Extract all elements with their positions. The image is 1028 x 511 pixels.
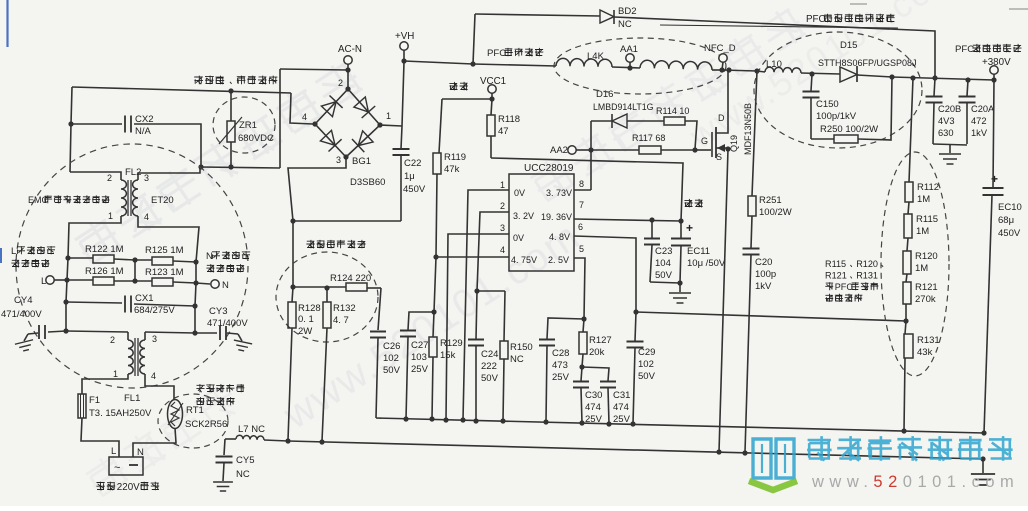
wire AC-N to left loop: [280, 69, 348, 70]
svg-text:ZR1: ZR1: [239, 120, 257, 131]
node row2 mid: [132, 278, 137, 283]
wire PFC output line: [892, 77, 994, 80]
svg-text:C29: C29: [638, 347, 655, 358]
svg-text:1: 1: [113, 369, 118, 379]
svg-text:NC: NC: [236, 469, 250, 480]
node CX1 right: [192, 303, 197, 308]
node NFC_D junction: [719, 67, 724, 72]
wire F1 to inlet L: [81, 418, 119, 457]
svg-text:R126 1M: R126 1M: [85, 266, 124, 277]
resistor R131: [905, 321, 906, 334]
svg-text:N: N: [222, 280, 229, 291]
svg-text:50V: 50V: [383, 365, 401, 376]
bus wire signal-ground: [376, 418, 984, 433]
resistor R122: [68, 257, 93, 259]
svg-text:C28: C28: [552, 348, 569, 359]
svg-text:PFC: PFC: [835, 282, 854, 292]
node pin4-R119: [433, 254, 438, 259]
svg-text:43k: 43k: [917, 347, 933, 358]
transformer FL2 left winding: [121, 180, 126, 216]
svg-text:8: 8: [579, 179, 584, 189]
dashed ellipse L4K: [554, 38, 726, 94]
svg-text:4. 7: 4. 7: [333, 315, 349, 326]
svg-text:NC: NC: [510, 354, 524, 365]
node +VH junction: [401, 58, 406, 63]
wire Q19 source to bus: [719, 149, 728, 452]
wire RT1 to inlet N: [133, 428, 176, 457]
resistor R132: [326, 288, 328, 302]
svg-text:R114 10: R114 10: [656, 106, 689, 116]
node L7-R128 junction: [285, 438, 290, 443]
node R119-R129 junction: [431, 309, 436, 314]
node VCC1 junction: [489, 96, 494, 101]
wire pin5: [574, 258, 585, 319]
svg-text:EC10: EC10: [998, 202, 1022, 213]
svg-text:68μ: 68μ: [998, 215, 1014, 226]
resistor R121: [903, 282, 911, 304]
transformer FL1 core: [134, 338, 136, 376]
resistor R129: [433, 312, 434, 337]
svg-text:100/2W: 100/2W: [759, 207, 792, 218]
node R251 snubber junction: [754, 68, 759, 73]
wire FL2 pin2 top: [70, 172, 121, 180]
node C20B junction: [932, 75, 937, 80]
wire EC11-C23 join: [650, 282, 680, 283]
dashed circle around ZR1: [213, 97, 275, 153]
faint diagonal watermark 2: [275, 213, 588, 438]
node AC-N junction: [345, 67, 350, 72]
node bus1 R131: [901, 428, 906, 433]
node bus2 C20: [742, 450, 747, 455]
svg-text:www.520101.com: www.520101.com: [811, 473, 1019, 491]
svg-text:1: 1: [500, 180, 505, 190]
node row1 mid: [132, 257, 137, 262]
transformer FL1 right winding: [144, 332, 146, 340]
node row2 right: [193, 280, 198, 285]
terminal NFC_D: [719, 54, 727, 62]
svg-text:R122 1M: R122 1M: [85, 244, 124, 255]
svg-text:R115: R115: [916, 214, 938, 225]
node bridge pin2: [345, 86, 350, 91]
node C20A junction: [965, 77, 970, 82]
svg-text:Q19: Q19: [729, 135, 739, 152]
svg-text:C31: C31: [613, 390, 630, 401]
svg-text:D15: D15: [840, 40, 857, 51]
terminal VCC1: [488, 85, 496, 93]
wire L4K mid: [612, 67, 640, 68]
svg-text:CY3: CY3: [209, 306, 227, 317]
node bus1 C24: [473, 418, 478, 423]
svg-text:N/A: N/A: [135, 126, 152, 137]
node ZR1 top junction: [228, 88, 233, 93]
svg-text:1kV: 1kV: [755, 281, 772, 292]
node bus1 C30: [579, 420, 584, 425]
bridge diode bottom-right: [358, 131, 373, 146]
node CX1 left: [63, 299, 68, 304]
ground main: [982, 459, 984, 473]
svg-text:UCC28019: UCC28019: [524, 163, 574, 174]
svg-text:R120: R120: [915, 251, 938, 262]
svg-text:AC-N: AC-N: [338, 44, 362, 55]
node bridge pin3: [343, 154, 348, 159]
svg-text:R132: R132: [333, 303, 356, 314]
svg-text:LMBD914LT1G: LMBD914LT1G: [593, 102, 654, 112]
node bus1 R129: [429, 416, 434, 421]
svg-text:25V: 25V: [585, 414, 603, 425]
blue scan edge line: [6, 0, 8, 47]
resistor R127: [583, 319, 584, 332]
wire pin4: [436, 256, 509, 258]
terminal N: [211, 280, 219, 288]
svg-text:L: L: [41, 276, 46, 287]
wire C26 riser: [378, 288, 381, 330]
bus wire power-return: [288, 441, 983, 459]
svg-text:C150: C150: [816, 99, 839, 110]
wire mid column: [134, 260, 136, 281]
resistor R126: [67, 279, 93, 281]
resistor R125: [135, 259, 152, 261]
svg-text:R121: R121: [825, 271, 847, 281]
wire bridge pin3 down-left: [288, 157, 346, 221]
node pin2-C24 junction: [474, 288, 479, 293]
svg-text:R121: R121: [915, 282, 938, 293]
svg-text:4: 4: [151, 371, 156, 381]
node bus1 right end: [981, 430, 986, 435]
svg-text:5: 5: [579, 244, 584, 254]
capacitor C20B: [934, 78, 935, 96]
wire right column rows: [195, 262, 196, 333]
svg-text:NC: NC: [618, 19, 632, 30]
node R112 column junction: [910, 75, 915, 80]
transistor Q19 source lead: [716, 147, 728, 149]
node Q19 source junction: [725, 146, 730, 151]
inductor L10: [757, 71, 765, 72]
svg-text:R120: R120: [856, 259, 878, 269]
label 防高压、雷击电阻: [194, 76, 203, 85]
label 供电 (VCC1): [449, 82, 457, 90]
wire C22 riser: [401, 62, 404, 149]
svg-text:L: L: [11, 245, 16, 256]
faint diagonal watermark 3: [527, 4, 809, 205]
svg-text:L10: L10: [766, 59, 782, 70]
svg-text:474: 474: [585, 402, 601, 413]
resistor R115: [904, 214, 912, 238]
node AA1 junction: [627, 65, 632, 70]
transformer FL1 left winding: [127, 332, 129, 340]
resistor R150: [504, 291, 505, 341]
svg-text:S: S: [716, 152, 722, 162]
resistor R117: [591, 149, 639, 151]
wire N terminal: [196, 283, 210, 284]
svg-text:1M: 1M: [916, 226, 929, 237]
svg-text:630: 630: [938, 128, 954, 138]
svg-text:F1: F1: [89, 395, 100, 406]
label annotation line4: [825, 294, 833, 302]
svg-text:1kV: 1kV: [971, 128, 988, 138]
svg-text:472: 472: [971, 116, 987, 126]
label 供电 (pin7): [684, 199, 692, 207]
svg-text:684/275V: 684/275V: [134, 305, 175, 316]
svg-text:0V: 0V: [514, 188, 525, 198]
svg-text:3: 3: [152, 334, 157, 344]
svg-text:4: 4: [500, 245, 505, 255]
svg-text:R118: R118: [498, 114, 520, 125]
label Q19: [729, 135, 739, 152]
svg-text:102: 102: [638, 359, 654, 370]
svg-text:AA2: AA2: [550, 145, 568, 156]
node pin7-C23: [649, 217, 654, 222]
label MDF13N50B: [743, 103, 753, 155]
node VH-riser junction: [470, 61, 475, 66]
svg-text:1: 1: [108, 211, 113, 221]
bridge diode top-left: [321, 102, 336, 117]
AC inlet connector: [109, 457, 143, 475]
node bridge pin4: [312, 121, 317, 126]
inductor L7: [225, 438, 236, 440]
ground output caps: [949, 144, 951, 153]
svg-text:20k: 20k: [589, 347, 605, 358]
capacitor C28: [539, 340, 555, 346]
svg-text:450V: 450V: [998, 228, 1021, 239]
wire C27 branch: [408, 312, 434, 330]
svg-text:D: D: [718, 113, 725, 123]
svg-text:4: 4: [302, 112, 307, 122]
svg-text:C27: C27: [411, 340, 428, 351]
svg-text:3: 3: [336, 155, 341, 165]
node bridge pin1: [377, 122, 382, 127]
transformer FL2 right winding: [133, 180, 138, 216]
wire NFC_D node: [722, 70, 757, 71]
dashed ellipse D15: [754, 32, 922, 148]
wire AC-N branch: [279, 69, 281, 168]
svg-text:15k: 15k: [440, 350, 456, 361]
svg-text:1M: 1M: [915, 263, 928, 274]
label 保护电阻: [196, 397, 204, 405]
svg-text:0V: 0V: [513, 233, 524, 243]
capacitor C31: [600, 382, 616, 388]
capacitor C150: [811, 74, 812, 91]
inductor L4K section2: [640, 60, 712, 70]
svg-text:2: 2: [110, 335, 115, 345]
svg-text:R150: R150: [510, 342, 533, 353]
resistor R120: [903, 251, 911, 274]
wire CY row left segment: [66, 331, 128, 332]
capacitor C22: [393, 149, 410, 155]
node ZR1 bottom junction: [228, 164, 233, 169]
inductor L4K section1: [556, 58, 612, 67]
capacitor CY3: [195, 332, 217, 334]
svg-text:2: 2: [338, 78, 343, 88]
svg-text:C23: C23: [655, 246, 672, 257]
node CY row left: [63, 328, 68, 333]
resistor R112: [909, 78, 913, 182]
svg-text:STTH8S06FP/UGSP08J: STTH8S06FP/UGSP08J: [818, 58, 917, 68]
wire N-row (ZR1 bottom row): [140, 167, 200, 173]
svg-text:3. 2V: 3. 2V: [513, 211, 534, 221]
svg-text:4: 4: [144, 212, 149, 222]
svg-text:102: 102: [383, 353, 399, 364]
svg-text:2W: 2W: [298, 326, 312, 337]
wire FL2 pin3 stub: [138, 173, 140, 180]
node CX2-right to N-row junction: [198, 164, 203, 169]
svg-text:6: 6: [578, 222, 583, 232]
svg-text:SCK2R56: SCK2R56: [185, 419, 227, 430]
node bus1 C27: [403, 416, 408, 421]
diode D16: [591, 120, 612, 122]
svg-text:R131: R131: [917, 335, 940, 346]
wire pin7: [574, 219, 681, 221]
node fb-C29 junction: [633, 309, 638, 314]
faint diagonal watermark 4: [681, 0, 966, 157]
watermark book icon: [753, 439, 794, 478]
wire CX2 row right: [134, 124, 201, 167]
wire pin1: [463, 190, 509, 420]
capacitor CY5: [224, 439, 225, 455]
svg-text:+: +: [991, 172, 998, 186]
svg-text:R250 100/2W: R250 100/2W: [820, 124, 878, 135]
node Q19 drain junction: [726, 67, 731, 72]
svg-text:C20: C20: [755, 257, 772, 268]
node C150 junction: [809, 71, 814, 76]
dashed circle RT1: [158, 394, 228, 448]
svg-text:T3. 15AH250V: T3. 15AH250V: [89, 408, 152, 419]
node bus2 Q19 source: [716, 449, 721, 454]
svg-text:471/400V: 471/400V: [207, 318, 248, 329]
svg-text:2: 2: [500, 201, 505, 211]
node pin5-C28 junction: [581, 316, 586, 321]
diode BD2: [475, 14, 600, 16]
capacitor C26: [370, 332, 386, 338]
wire pin4 riser from ZR1 bus: [290, 93, 313, 124]
wire sense column: [292, 221, 294, 287]
node C22-return junction: [290, 218, 295, 223]
label annotation line3: [825, 282, 833, 290]
dashed circle current-sense: [276, 252, 378, 342]
node CX2 left junction: [68, 121, 73, 126]
node EC11 ground junction: [677, 280, 682, 285]
svg-text:220V: 220V: [117, 482, 140, 493]
svg-text:L: L: [111, 446, 116, 457]
wire pin6: [574, 236, 636, 312]
node bus1 C28: [543, 419, 548, 424]
svg-text:C22: C22: [404, 158, 421, 169]
svg-text:D3SB60: D3SB60: [350, 177, 385, 188]
node output junction: [991, 77, 996, 82]
wire +VH node: [404, 61, 473, 64]
svg-text:471/400V: 471/400V: [1, 309, 42, 320]
svg-text:3. 73V: 3. 73V: [546, 188, 572, 198]
wire CX1 row left: [66, 302, 122, 303]
varistor ZR1: [230, 93, 232, 121]
capacitor C24: [476, 291, 477, 339]
svg-text:7: 7: [579, 200, 584, 210]
resistor R251: [752, 71, 757, 196]
watermark site name: [807, 436, 832, 461]
label 开机防冲击: [196, 384, 204, 392]
wire FL1 pin1 to fuse: [82, 374, 128, 394]
leader line: [660, 25, 898, 28]
svg-text:0. 1: 0. 1: [298, 314, 314, 325]
ground CY3: [238, 334, 242, 341]
svg-text:10μ /50V: 10μ /50V: [687, 258, 726, 269]
wire FL2 pin1 to row1: [68, 216, 121, 258]
wire CX2 row left: [71, 123, 122, 125]
svg-text:PFC: PFC: [806, 14, 826, 25]
label 电流检测电路: [306, 240, 314, 248]
node R127-C30 junction: [579, 364, 584, 369]
svg-text:4V3: 4V3: [938, 116, 955, 126]
faint diagonal watermark 5: [82, 379, 241, 500]
bridge diode bottom-left: [320, 130, 335, 145]
wire CX1 row right: [134, 304, 195, 306]
node R132 top: [324, 285, 329, 290]
svg-text:CY4: CY4: [14, 295, 32, 306]
resistor R123: [135, 280, 152, 282]
svg-text:100p: 100p: [755, 269, 776, 280]
wire riser to BD2 line: [473, 14, 475, 64]
svg-text:C24: C24: [481, 349, 498, 360]
resistor R114: [664, 117, 685, 125]
label 电路部分 (N): [206, 264, 214, 272]
capacitor C30: [581, 367, 582, 381]
svg-text:CX1: CX1: [135, 293, 153, 304]
svg-text:C20A: C20A: [971, 104, 995, 114]
node CY row right: [192, 330, 197, 335]
svg-text:680VDC: 680VDC: [238, 133, 274, 144]
capacitor CY4: [48, 331, 66, 332]
wire left column rows: [66, 258, 68, 331]
svg-text:450V: 450V: [403, 184, 426, 195]
resistor R250: [811, 138, 834, 140]
wire C31 branch: [582, 367, 609, 381]
node row1 right: [193, 259, 198, 264]
svg-text:50V: 50V: [638, 371, 656, 382]
ground CY4: [24, 334, 28, 341]
node row1 left: [65, 255, 70, 260]
svg-text:BD2: BD2: [618, 6, 636, 17]
node gate junction: [692, 147, 697, 152]
svg-text:R127: R127: [589, 335, 612, 346]
svg-text:1: 1: [386, 111, 391, 121]
terminal AA1: [626, 54, 634, 62]
svg-text:C26: C26: [383, 341, 400, 352]
wire VH-node to L4K: [473, 64, 556, 66]
node AA2 junction: [588, 147, 593, 152]
svg-text:47: 47: [498, 126, 509, 137]
wire feedback: [636, 312, 906, 321]
svg-text:473: 473: [552, 360, 568, 371]
capacitor C29: [635, 312, 636, 341]
svg-text:R112: R112: [917, 182, 939, 193]
svg-text:+VH: +VH: [395, 31, 414, 42]
svg-text:NFC_D: NFC_D: [704, 43, 736, 54]
svg-text:C20B: C20B: [938, 104, 961, 114]
svg-text:47k: 47k: [444, 164, 460, 175]
svg-text:RT1: RT1: [186, 405, 204, 416]
capacitor EC11: [680, 221, 682, 238]
svg-text:EC11: EC11: [687, 246, 710, 257]
wire C22 return row: [293, 220, 401, 222]
wire cap join: [933, 144, 967, 145]
svg-text:+: +: [686, 221, 693, 235]
wire AC-N to bridge pin2: [347, 70, 349, 89]
wire AA2 vertical: [590, 121, 592, 190]
svg-text:R125 1M: R125 1M: [145, 245, 184, 256]
svg-text:L7 NC: L7 NC: [238, 424, 265, 435]
svg-text:~: ~: [114, 462, 120, 474]
wire C22 bottom: [400, 155, 402, 221]
fuse F1: [78, 394, 86, 418]
